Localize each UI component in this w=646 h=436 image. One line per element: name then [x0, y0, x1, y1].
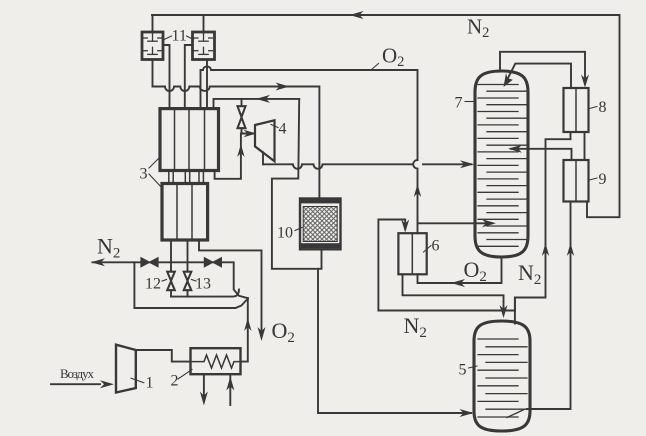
svg-text:6: 6: [432, 238, 440, 255]
adsorber unit 6: [398, 233, 426, 274]
arrow east into turbine 4 inlet: [244, 130, 257, 137]
valve box 11 (right): [193, 32, 215, 60]
svg-text:9: 9: [599, 171, 607, 188]
wire: adsorber bottom stub: [318, 249, 322, 268]
heat exchanger 3 lower block: [162, 184, 208, 241]
svg-text:12: 12: [145, 276, 161, 293]
aftercooler 2: [191, 348, 241, 374]
label 10 with leader: [295, 228, 302, 231]
wire: O2 product takeoff from lower block bottom: [199, 240, 262, 337]
wire: N2 product line y262.3 with corner down: [93, 262, 248, 298]
label 9 with leader: [590, 178, 598, 180]
wire: turbine bypass return line y98.9 into exchanger top: [214, 99, 300, 109]
svg-text:N2: N2: [404, 313, 427, 341]
wire: warm air line y86.5 with jump bumps, east arrow, down to adsorber: [153, 87, 320, 199]
wire: N2 line from unit6 bottom to column5 top (down arrow): [403, 274, 504, 314]
svg-text:2: 2: [171, 373, 179, 390]
svg-text:7: 7: [455, 95, 463, 112]
svg-text:1: 1: [146, 375, 154, 392]
wire: turbine outlet down to expanded-air line: [262, 152, 264, 164]
svg-text:4: 4: [279, 121, 287, 138]
wire: inter-block stubs: [169, 171, 204, 184]
label 11 with leaders: [164, 36, 194, 40]
arrow west on O2 reflux: [451, 279, 465, 287]
arrow up on x545.5 riser: [542, 243, 549, 256]
label 3 with leaders: [149, 157, 163, 189]
wire: column 7 overhead to unit 8 (y51.8): [500, 52, 585, 84]
svg-text:O2: O2: [464, 257, 487, 285]
svg-text:O2: O2: [272, 318, 295, 346]
wire: unit9 bottom riser from column5 y413 with up arrow: [527, 202, 571, 410]
throttle valve above turbine: [241, 99, 243, 106]
arrow up on compressed air riser: [244, 318, 251, 331]
wire: cooling water in (up arrow): [229, 374, 231, 405]
wire: unit8 to unit9 (x584.5): [584, 132, 586, 160]
label 5 with leader: [469, 366, 478, 368]
wire: adsorber return path (L2) x299 down, west, x271.9 down to y268.8: [272, 99, 316, 269]
arrow up on turbine feed riser: [237, 144, 244, 157]
label 2 with leader: [178, 370, 192, 380]
valve box 11 left internals: [144, 34, 162, 55]
wire: box11-left bottom stub: [152, 60, 154, 87]
lower column 5: [474, 321, 530, 431]
arrow into dome: [504, 73, 513, 87]
label 6 with leader: [424, 246, 432, 253]
svg-text:5: 5: [459, 362, 467, 379]
wire: node to unit 6 top: [417, 223, 419, 233]
svg-text:N2: N2: [467, 15, 489, 42]
arrow west on N2 product line: [91, 258, 105, 266]
wire: liquid return from unit 9 top into column 7 (y148.8): [511, 149, 572, 160]
wire: air inlet with arrow (Воздух): [51, 383, 100, 385]
svg-text:3: 3: [140, 166, 148, 183]
gate valve (bowtie) on N2 line, west: [141, 258, 158, 267]
svg-text:Воздух: Воздух: [60, 366, 95, 381]
label 7 with leader: [465, 101, 474, 103]
wire: branch y310.5 west to unit6 feed riser: [378, 310, 515, 312]
throttle valve 12: [167, 272, 175, 291]
wire: column 5 bottom takeoff diagonal: [507, 410, 524, 418]
exchanger 9: [564, 160, 589, 202]
wire: lower feed line y223.2 into column 7: [418, 222, 493, 224]
wire: crude O2 drop line x318 down to column5 feed line y413: [318, 269, 471, 413]
svg-text:8: 8: [599, 99, 607, 116]
label O2 (top) with leader tick: [372, 64, 379, 70]
adsorber 10: [300, 199, 341, 250]
wire: N2 passages down to throttle valves 12/13: [170, 240, 172, 272]
wire: compressor discharge to cooler 2: [136, 350, 191, 362]
svg-text:O2: O2: [382, 44, 404, 71]
upper column 7: [475, 71, 528, 257]
svg-text:13: 13: [195, 276, 211, 293]
arrow east into column 5 at y413: [460, 409, 474, 417]
wire: top N2 header line: [152, 15, 620, 217]
compressor 1: [116, 345, 136, 393]
wire: reflux return into column 7 dome (y63.6): [506, 64, 572, 88]
throttle valve 13: [184, 272, 192, 291]
label 4 with leader: [271, 125, 278, 128]
arrow up on O2 vertical: [414, 184, 421, 197]
arrow west on y98.9: [256, 95, 270, 103]
wire: box11-right to inner vertical (x186): [185, 45, 193, 109]
svg-text:N2: N2: [518, 260, 541, 288]
svg-text:N2: N2: [97, 234, 120, 262]
wire: box11-right top stub to header: [203, 15, 205, 32]
arrow down O2 product: [258, 327, 266, 341]
arrow down into unit 8: [581, 75, 589, 88]
label 1 with leader: [131, 378, 144, 383]
turbine 4: [255, 120, 275, 161]
wire: O2 vertical jump over air feed line y164.3 then down to node: [413, 160, 417, 223]
arrow west into column 7 at y148.8: [508, 145, 522, 153]
heat exchanger 3 upper block: [160, 109, 219, 171]
wire: column5 top vapor riser to unit8 (x515, x545.5): [515, 132, 571, 324]
label 8 with leader: [590, 107, 598, 109]
svg-text:11: 11: [172, 28, 187, 45]
svg-text:10: 10: [277, 225, 293, 242]
valve box 11 (left): [142, 32, 163, 60]
wire: expanded air line y164.3 into column 7 with jump bumps: [263, 164, 472, 169]
arrow on top N2 header (west): [350, 11, 364, 19]
wire: box11-left to inner vertical (x169.5): [163, 45, 170, 109]
column 5 trays: [478, 339, 527, 417]
wire: turbine feed riser from exchanger bottom (L1): [215, 134, 241, 179]
wire: compressed air riser from cooler 2 to junction: [241, 298, 248, 362]
exchanger 8: [564, 88, 589, 132]
gate valve (bowtie) on N2 line, east: [204, 258, 221, 267]
arrow east into column 7 at y164.3: [460, 160, 474, 168]
wire: valve outlet header y296.6 curving up to N2 corner: [171, 290, 239, 297]
wire: feed into unit 6 top (from column 5 riser): [378, 220, 405, 310]
labels 12 and 13 with leaders: [162, 280, 196, 282]
wire: box11-left top stub to header: [152, 15, 154, 32]
cooler 2 coil: [191, 355, 241, 368]
wire: O2 warm line y70 from exchanger top to x417.5: [201, 66, 418, 160]
arrow east on y86.5 line: [276, 83, 290, 91]
valve box 11 right internals: [194, 34, 212, 55]
column 7 trays: [478, 85, 527, 247]
wire: cooling water out (down arrow): [203, 374, 205, 400]
wire: box11-right bottom vertical to exchanger top: [206, 60, 208, 109]
arrow east into column 7 at y223.3: [482, 219, 496, 227]
wire: valve outlet to turbine inlet junction: [242, 128, 254, 133]
arrow down into unit 6: [401, 220, 409, 233]
wire: bypass drop at x134.4 and line y308 to junction: [134, 262, 247, 308]
wire: stubs below valves 12/13: [170, 290, 172, 296]
wire: O2 reflux line y284.4 from column7 bottom into unit6 bottom: [418, 257, 502, 283]
